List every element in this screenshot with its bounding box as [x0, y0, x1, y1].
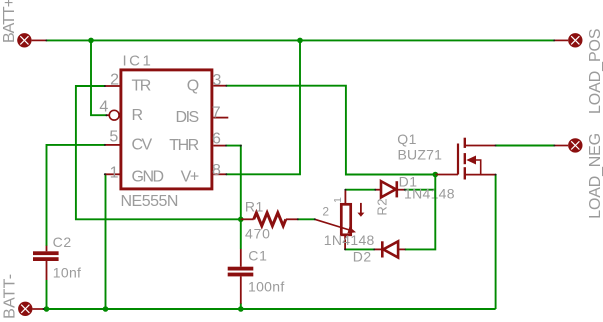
svg-text:LOAD_NEG: LOAD_NEG — [587, 133, 603, 219]
wire net TR: pin2 left-down-right to R1 junction — [76, 86, 241, 219]
wire R1 right to pot wiper — [298, 218, 315, 220]
pin 6 THR stub — [213, 145, 226, 147]
capacitor C1 — [228, 249, 254, 304]
diode D2 — [374, 241, 405, 257]
wire net BATT+ drop to V+ pin8 — [226, 40, 300, 174]
svg-text:BATT+: BATT+ — [1, 0, 18, 43]
svg-text:4: 4 — [99, 98, 108, 115]
pad LOAD_POS — [554, 33, 582, 47]
svg-text:R: R — [132, 107, 143, 124]
svg-text:6: 6 — [212, 130, 221, 147]
wire net Q output: pin3 right, down, right to gate — [226, 86, 435, 175]
pad LOAD_NEG — [554, 138, 582, 152]
svg-text:Q1: Q1 — [397, 131, 417, 147]
wire C2 bottom to rail — [46, 280, 48, 309]
junction gate node — [433, 172, 439, 178]
wire net THR: pin6 right then down to junction and C1 — [226, 146, 241, 249]
pin 2 TR stub — [105, 85, 120, 87]
pad BATT+ — [17, 33, 46, 47]
transistor Q1 BUZ71 MOSFET — [435, 138, 495, 180]
svg-text:470: 470 — [245, 225, 271, 241]
junction top rail x91 — [88, 38, 94, 44]
svg-text:1N4148: 1N4148 — [404, 186, 455, 202]
wire net GND bottom rail — [44, 308, 496, 310]
svg-text:1: 1 — [332, 197, 344, 203]
wire MOSFET drain to LOAD_NEG — [496, 145, 555, 147]
wire C1 bottom to rail — [240, 303, 242, 309]
svg-text:DIS: DIS — [176, 109, 199, 126]
junction rail x105.5 — [103, 306, 109, 312]
svg-text:IC1: IC1 — [123, 53, 154, 70]
capacitor C2 — [33, 246, 59, 280]
junction rail x240.8 — [238, 306, 244, 312]
wire net CV: pin5 left then down to C2 — [47, 145, 105, 246]
svg-text:2: 2 — [110, 71, 119, 88]
junction rail x46.5 — [44, 306, 50, 312]
svg-text:CV: CV — [132, 136, 153, 153]
pin connection points — [43, 39, 556, 310]
svg-text:BUZ71: BUZ71 — [398, 147, 443, 163]
resistor R1 — [241, 213, 298, 226]
op-amp IC1 NE555N body — [121, 70, 212, 189]
wire net BATT+ top rail — [46, 39, 554, 41]
potentiometer R2 body — [315, 190, 365, 250]
svg-text:LOAD_POS: LOAD_POS — [587, 29, 603, 114]
svg-text:8: 8 — [212, 162, 221, 179]
svg-text:C1: C1 — [248, 248, 267, 264]
svg-text:7: 7 — [212, 104, 221, 121]
wire D1 cathode to gate vertical — [405, 189, 436, 191]
junction top rail x300 — [297, 38, 303, 44]
junction R1/THR/TR/C1 — [238, 217, 244, 223]
svg-text:10nf: 10nf — [53, 264, 81, 280]
svg-text:1: 1 — [110, 164, 119, 181]
svg-text:D2: D2 — [353, 248, 372, 264]
wire net GND: pin1 down to bottom rail — [104, 174, 107, 309]
wire pot pin1 to D1 anode — [345, 189, 375, 191]
svg-text:5: 5 — [109, 128, 118, 145]
pad BATT- — [18, 302, 43, 316]
pin 5 CV stub — [105, 144, 120, 146]
svg-text:NE555N: NE555N — [121, 193, 178, 210]
svg-text:TR: TR — [132, 78, 151, 95]
svg-text:R2: R2 — [374, 198, 389, 216]
svg-text:GND: GND — [132, 169, 164, 186]
wire gate node vertical down to D2 anode — [406, 175, 436, 250]
pin 1 GND stub — [105, 173, 120, 175]
wire pot bottom to D2 cathode — [345, 248, 374, 250]
pin 8 V+ stub — [213, 173, 226, 175]
svg-text:2: 2 — [322, 205, 329, 219]
svg-text:V+: V+ — [181, 169, 199, 186]
svg-text:BATT-: BATT- — [2, 274, 19, 319]
pin 7 DIS stub (unconnected) — [213, 117, 228, 119]
svg-text:R1: R1 — [245, 198, 264, 214]
pin 4 R stub with inversion bubble — [107, 110, 120, 120]
svg-text:3: 3 — [213, 72, 222, 89]
wire MOSFET source down to rail — [495, 175, 497, 309]
svg-text:Q: Q — [187, 77, 199, 94]
wire net BATT+ drop to pin4 R — [91, 40, 107, 115]
svg-text:THR: THR — [169, 137, 198, 154]
svg-text:C2: C2 — [53, 234, 72, 250]
svg-text:1N4148: 1N4148 — [324, 232, 375, 248]
svg-text:100nf: 100nf — [248, 279, 285, 295]
diode D1 — [375, 181, 404, 197]
pin 3 Q stub — [213, 85, 226, 87]
